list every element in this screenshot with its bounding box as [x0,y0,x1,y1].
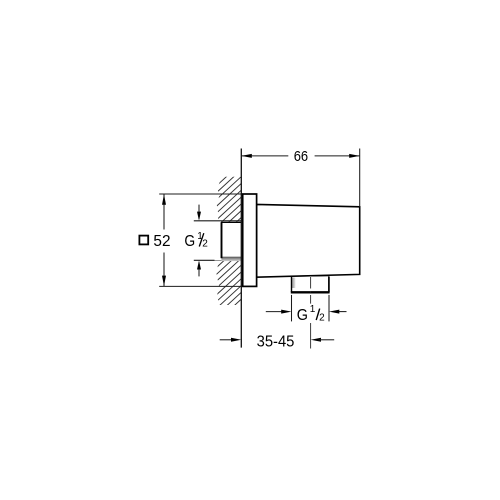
svg-text:2: 2 [202,239,208,250]
flange (escutcheon) [243,194,257,286]
wire: extension line inlet top (G1/2 dim) [194,220,242,222]
svg-text:2: 2 [319,312,325,323]
svg-text:66: 66 [294,148,308,165]
wire: extension line top of flange (52 dim) [159,193,242,195]
svg-text:G: G [184,233,195,250]
connector: inlet thread nipple behind wall [215,222,242,261]
wire: extension line inlet bottom (G1/2 dim) [194,259,242,261]
dimension 52 left with square symbol [139,194,170,286]
wire: extension line bottom of flange (52 dim) [159,285,242,287]
wall face line [240,149,242,348]
dimension G 1/2 outlet [266,295,347,324]
label G 1/2 inlet with arrows [184,205,208,277]
dimension 66 top [241,148,359,207]
wall hatching [58,157,418,318]
body of elbow [257,204,360,277]
svg-text:52: 52 [153,233,170,250]
svg-text:35-45: 35-45 [257,334,295,351]
svg-text:G: G [297,307,308,324]
dimension 35-45 bottom [220,334,335,351]
svg-text:1: 1 [310,304,316,315]
outlet nipple at bottom [291,276,330,293]
centerline of outlet [310,277,312,349]
